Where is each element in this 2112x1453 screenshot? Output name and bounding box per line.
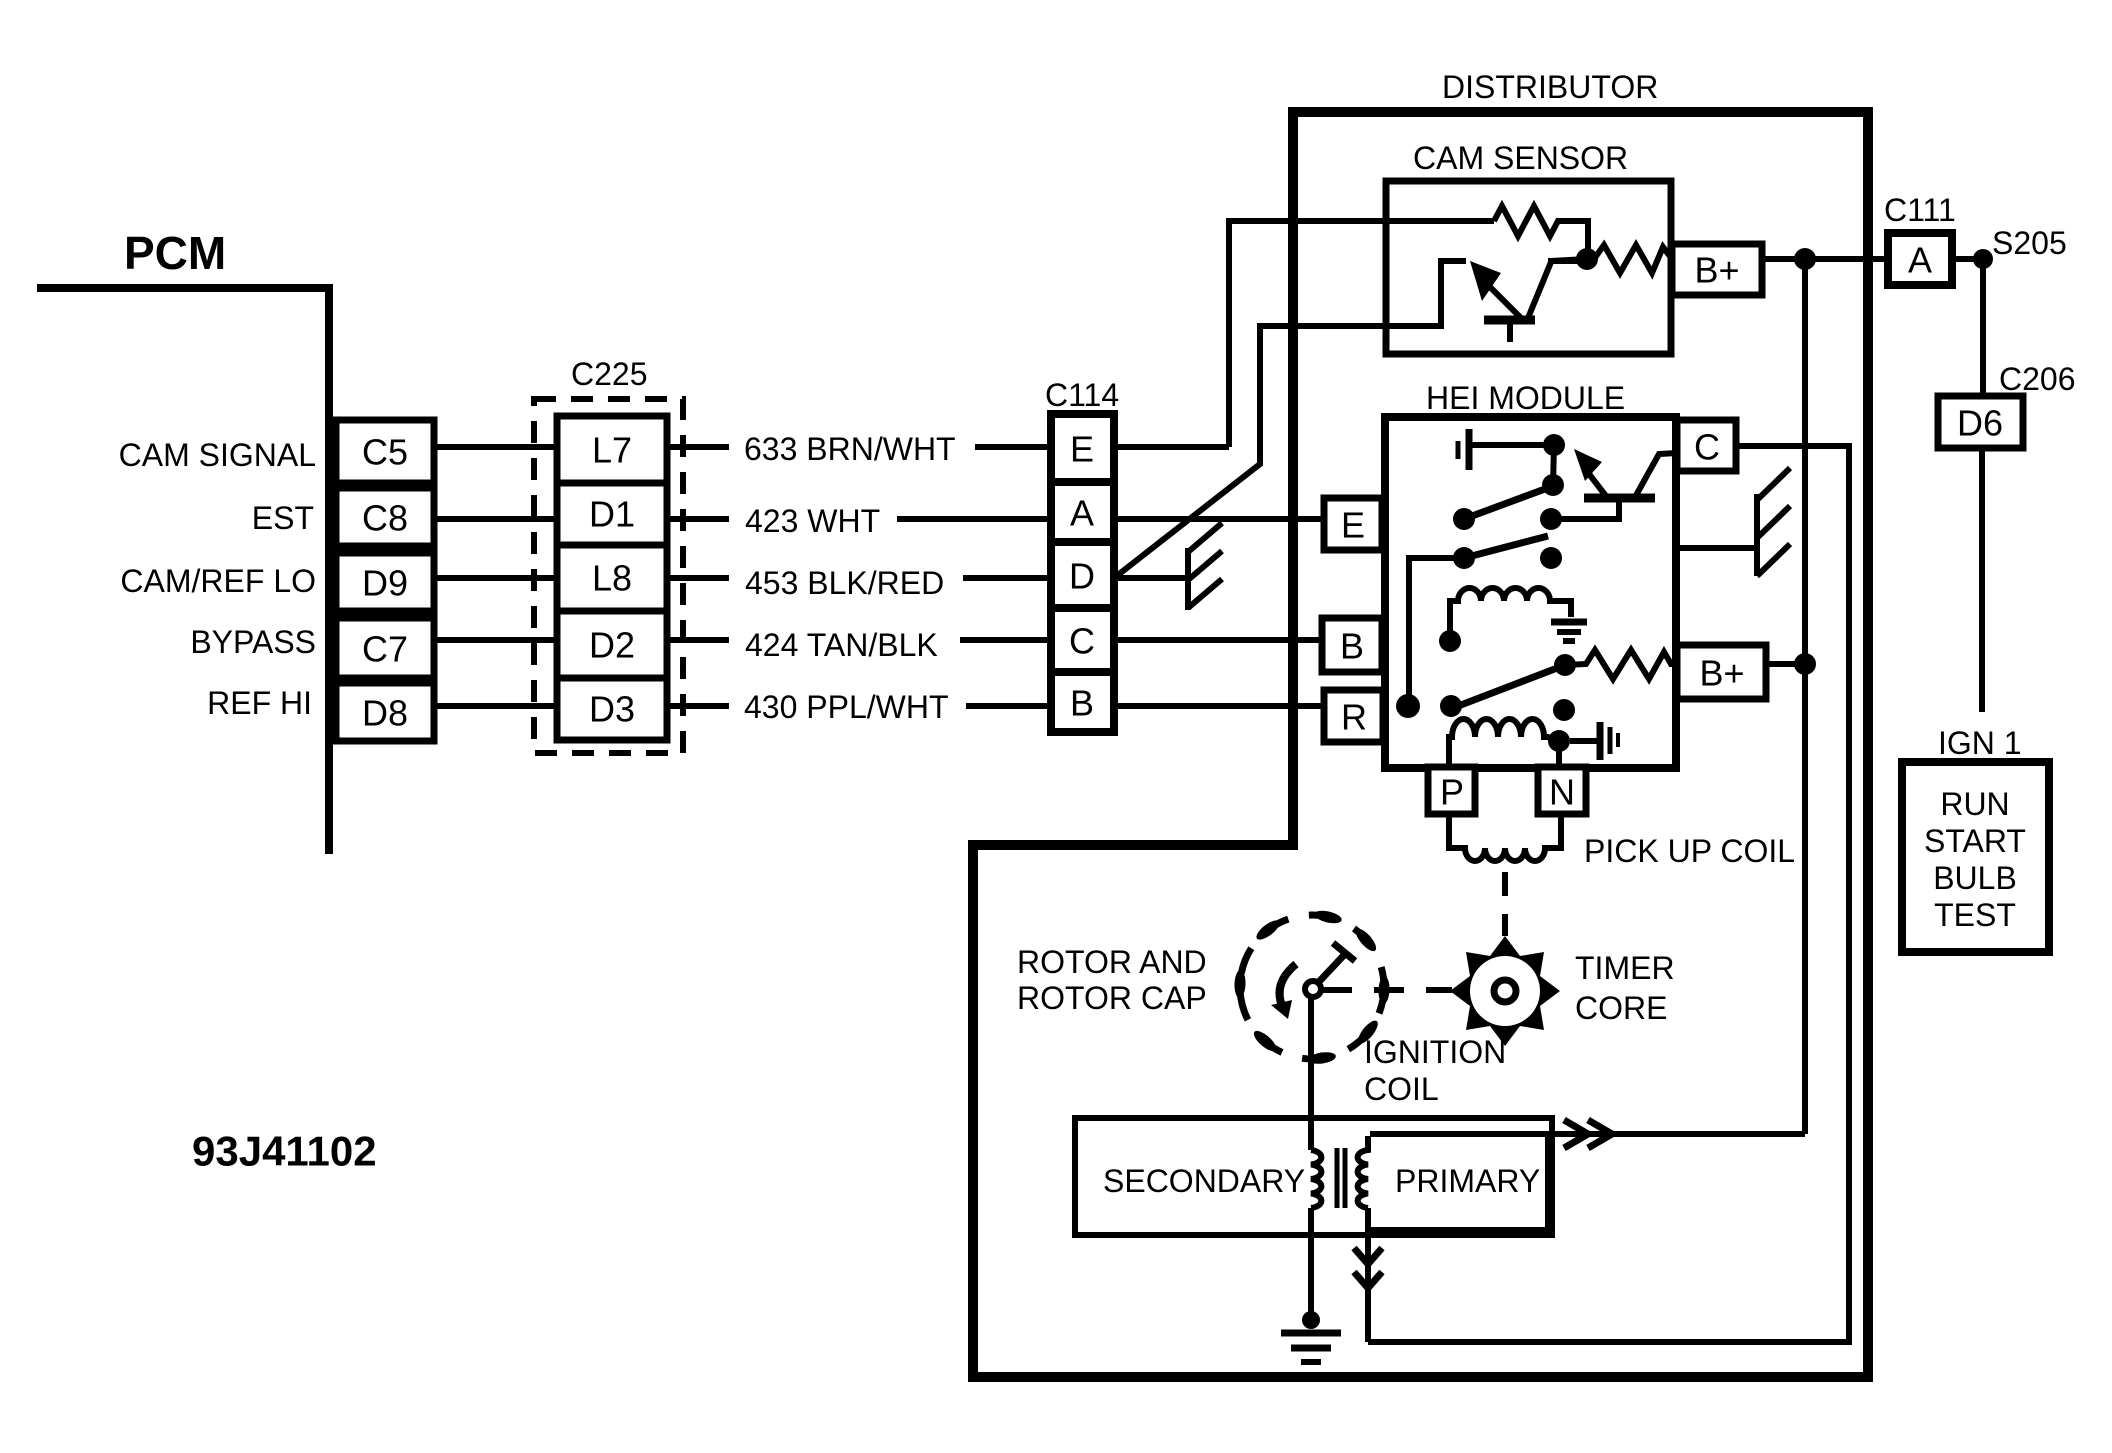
svg-text:A: A <box>1908 240 1932 281</box>
svg-text:COIL: COIL <box>1364 1071 1439 1107</box>
svg-text:C: C <box>1069 621 1095 662</box>
svg-text:R: R <box>1341 697 1367 738</box>
svg-text:453 BLK/RED: 453 BLK/RED <box>745 565 944 601</box>
svg-text:D: D <box>1069 556 1095 597</box>
svg-text:CORE: CORE <box>1575 990 1667 1026</box>
svg-text:C5: C5 <box>362 432 408 473</box>
wire C114-B to HEI pin R <box>1114 703 1324 709</box>
svg-text:PICK UP COIL: PICK UP COIL <box>1584 833 1795 869</box>
transformer primary winding <box>1358 1136 1368 1208</box>
svg-text:SECONDARY: SECONDARY <box>1103 1163 1305 1199</box>
wire B+ to C111 <box>1762 256 1888 262</box>
wire dashed rotor to timer core <box>1322 987 1452 993</box>
svg-text:93J41102: 93J41102 <box>192 1128 377 1175</box>
wire 423 right segment <box>897 516 1051 522</box>
svg-text:430 PPL/WHT: 430 PPL/WHT <box>744 689 949 725</box>
svg-text:C114: C114 <box>1045 377 1119 413</box>
transistor Q-cam base bar <box>1484 316 1535 325</box>
wire HEI C pin to right bus <box>1368 446 1849 1342</box>
wire rotor to secondary <box>1308 996 1314 1150</box>
node cam resistor junction <box>1576 248 1598 270</box>
svg-text:DISTRIBUTOR: DISTRIBUTOR <box>1442 69 1658 105</box>
svg-text:ROTOR CAP: ROTOR CAP <box>1017 980 1207 1016</box>
HEI pin E <box>1324 498 1382 550</box>
svg-text:B: B <box>1070 683 1094 724</box>
wire primary to C bus <box>1365 1208 1371 1342</box>
resistor R-cam1 <box>1494 206 1588 252</box>
rotor dashed circle <box>1240 915 1384 1059</box>
timer core star <box>1450 936 1560 1046</box>
svg-text:C225: C225 <box>571 356 648 392</box>
wire C114-C to HEI pin B <box>1114 637 1322 643</box>
node R junction 2 (arm3 pivot) <box>1440 695 1462 717</box>
inductor L2 (HEI pickup primary) <box>1449 719 1556 768</box>
svg-text:ROTOR AND: ROTOR AND <box>1017 944 1207 980</box>
svg-text:E: E <box>1070 429 1094 470</box>
node dot4 <box>1540 547 1562 569</box>
svg-text:D8: D8 <box>362 693 408 734</box>
transformer core <box>1335 1148 1340 1208</box>
PCM pin C8 <box>336 488 434 546</box>
node B junction <box>1439 630 1461 652</box>
wire C7 to C225 D2 <box>434 637 557 643</box>
wire C114-E to riser <box>1114 444 1229 450</box>
svg-text:423 WHT: 423 WHT <box>745 503 880 539</box>
switch arm 2 <box>1453 547 1475 569</box>
terminal B+ (cam sensor) <box>1672 244 1762 295</box>
wire cam sensor top inside <box>1386 218 1494 224</box>
wire arm2 to R net riser <box>1409 558 1464 706</box>
connector C114 body <box>1051 414 1114 732</box>
svg-text:START: START <box>1924 823 2026 859</box>
wire 424 right segment <box>960 637 1051 643</box>
wire 424 left stub <box>667 637 729 643</box>
svg-text:BYPASS: BYPASS <box>190 624 316 660</box>
svg-text:D9: D9 <box>362 563 408 604</box>
node dot1 <box>1543 434 1565 456</box>
chassis ground (HEI right) <box>1757 468 1790 576</box>
svg-text:CAM SIGNAL: CAM SIGNAL <box>119 437 316 473</box>
svg-text:D1: D1 <box>589 494 635 535</box>
chassis ground (C114 D) <box>1188 523 1222 610</box>
svg-text:CAM SENSOR: CAM SENSOR <box>1413 140 1628 176</box>
node dot6 <box>1548 730 1570 752</box>
transistor Q-hei base bar <box>1584 494 1655 503</box>
transistor Q-hei emitter <box>1586 470 1609 500</box>
HEI module box <box>1385 417 1676 768</box>
svg-text:IGNITION: IGNITION <box>1364 1034 1506 1070</box>
PCM pin C5 <box>336 420 434 483</box>
svg-text:C7: C7 <box>362 629 408 670</box>
wire 453 right segment <box>963 575 1051 581</box>
wire dashed pickup to timer core <box>1502 872 1508 936</box>
svg-text:EST: EST <box>252 500 314 536</box>
svg-text:HEI MODULE: HEI MODULE <box>1426 380 1625 416</box>
svg-text:C: C <box>1694 427 1720 468</box>
svg-text:BULB: BULB <box>1933 860 2017 896</box>
svg-text:CAM/REF LO: CAM/REF LO <box>120 563 316 599</box>
wire 430 left stub <box>667 703 729 709</box>
svg-text:PRIMARY: PRIMARY <box>1395 1163 1540 1199</box>
earth ground (secondary) <box>1281 1333 1341 1362</box>
wire HEI B+ to bus <box>1766 661 1805 667</box>
svg-text:P: P <box>1440 772 1464 813</box>
wire C114-D to chassis ground <box>1114 575 1188 581</box>
node secondary ground dot <box>1302 1311 1320 1329</box>
wire P pin to pickup coil <box>1449 814 1561 861</box>
node dot3 <box>1540 508 1562 530</box>
svg-text:E: E <box>1341 505 1365 546</box>
wire dot1-dot2 <box>1553 445 1554 485</box>
wire dot6 to N pin <box>1556 741 1562 767</box>
transformer secondary winding <box>1311 1150 1321 1208</box>
svg-text:D2: D2 <box>589 625 635 666</box>
connector C225 dashed outline <box>534 399 683 753</box>
rotor rotation arrow <box>1280 964 1296 1008</box>
svg-text:PCM: PCM <box>124 227 226 279</box>
wire 430 right segment <box>966 703 1051 709</box>
rotor pivot <box>1305 981 1321 997</box>
connector C111 pin A <box>1888 233 1952 285</box>
HEI pin N <box>1538 767 1586 814</box>
wire 423 left stub <box>667 516 729 522</box>
wire 633 left stub <box>667 444 729 450</box>
wire primary feed horizontal <box>1550 1131 1805 1137</box>
wire HEI right to chassis ground <box>1676 545 1757 551</box>
wire C206 down to IGN 1 <box>1979 448 1985 712</box>
wire D9 to C225 L8 <box>434 575 557 581</box>
wire PCM top horizontal <box>37 284 333 292</box>
svg-text:633 BRN/WHT: 633 BRN/WHT <box>744 431 956 467</box>
PCM pin C7 <box>336 618 434 678</box>
transistor Q-hei collector <box>1634 453 1677 499</box>
svg-text:L7: L7 <box>592 430 632 471</box>
inductor L1 (HEI) <box>1450 588 1571 641</box>
svg-text:REF HI: REF HI <box>207 685 312 721</box>
svg-text:B+: B+ <box>1699 653 1744 694</box>
svg-text:A: A <box>1070 493 1094 534</box>
wire S205 down to C206 <box>1980 259 1986 396</box>
transistor Q-cam collector <box>1528 261 1578 318</box>
wire D8 to C225 D3 <box>434 703 557 709</box>
wire C114-A to HEI pin E <box>1114 516 1324 522</box>
wire cam sensor low inside L <box>1386 261 1466 326</box>
svg-text:D6: D6 <box>1957 403 2003 444</box>
arrows on primary feed <box>1564 1120 1588 1148</box>
HEI pin R <box>1324 690 1383 742</box>
wire PCM vertical edge <box>325 284 333 854</box>
svg-text:C111: C111 <box>1884 192 1956 228</box>
svg-text:D3: D3 <box>589 689 635 730</box>
node dot5 <box>1553 699 1575 721</box>
svg-text:C8: C8 <box>362 498 408 539</box>
ground (HEI internal) <box>1551 622 1587 641</box>
arrows on primary return <box>1354 1248 1382 1264</box>
wire B+ bus vertical <box>1802 259 1808 1134</box>
HEI pin B <box>1322 618 1382 672</box>
node S205 <box>1973 249 1993 269</box>
wire 633 right segment <box>975 444 1051 450</box>
svg-text:B: B <box>1340 626 1364 667</box>
wire C8 to C225 D1 <box>434 516 557 522</box>
cam sensor box <box>1386 181 1671 354</box>
distributor enclosure outline <box>973 112 1868 1377</box>
PCM pin D8 <box>336 683 434 741</box>
ignition coil box <box>1075 1118 1552 1235</box>
svg-text:S205: S205 <box>1992 225 2067 261</box>
switch arm 3 <box>1453 665 1565 708</box>
node B+ bus junction <box>1794 653 1816 675</box>
connector C206 pin D6 <box>1938 396 2023 448</box>
resistor R-hei <box>1565 650 1677 679</box>
switch arm 1 (E contact) <box>1453 508 1475 530</box>
svg-text:N: N <box>1549 772 1575 813</box>
capacitor to ground (HEI bottom) <box>1570 722 1618 760</box>
rotor arm <box>1315 954 1345 986</box>
HEI pin C <box>1677 420 1736 471</box>
wire C111 to S205 <box>1952 256 1983 262</box>
wire riser to cam sensor top <box>1229 221 1494 447</box>
resistor R-cam2 <box>1594 245 1672 273</box>
svg-text:TEST: TEST <box>1934 897 2016 933</box>
connector C225 body <box>557 416 667 740</box>
rotor rotation blobs <box>1234 908 1390 1065</box>
PCM pin D9 <box>336 553 434 611</box>
wire C114-D diagonal to cam sensor low side <box>1114 326 1441 578</box>
transistor Q-hei base link <box>1551 500 1619 519</box>
wire secondary to ground <box>1308 1208 1314 1322</box>
wire 453 left stub <box>667 575 729 581</box>
node dot2 <box>1542 474 1564 496</box>
svg-text:IGN 1: IGN 1 <box>1938 725 2022 761</box>
IGN 1 fuse box <box>1902 762 2049 952</box>
HEI pin B+ <box>1677 645 1766 699</box>
node resistor junction <box>1554 654 1576 676</box>
svg-text:RUN: RUN <box>1940 786 2009 822</box>
HEI pin P <box>1428 767 1475 814</box>
capacitor to ground (HEI top-left) <box>1458 429 1545 470</box>
svg-text:B+: B+ <box>1694 250 1739 291</box>
node junction on B+ wire <box>1794 248 1816 270</box>
primary inner box <box>1370 1134 1548 1230</box>
svg-text:C206: C206 <box>1999 361 2076 397</box>
svg-text:424 TAN/BLK: 424 TAN/BLK <box>745 627 938 663</box>
node R junction 1 <box>1396 694 1420 718</box>
wire C5 to C225 L7 <box>434 444 557 450</box>
svg-text:TIMER: TIMER <box>1575 950 1675 986</box>
svg-text:L8: L8 <box>592 558 632 599</box>
transistor Q-cam emitter <box>1487 284 1522 319</box>
